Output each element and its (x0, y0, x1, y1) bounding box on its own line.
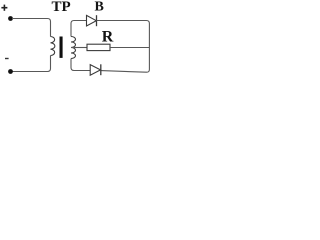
wire primary bottom to bottom-left terminal (12, 56, 51, 72)
wire secondary top to diode B1 (71, 21, 87, 37)
svg-text:B: B (95, 0, 104, 15)
wire diode B1 to right rail, down right side, bottom to diode B2 cathode (97, 21, 150, 73)
wire resistor R to right rail (110, 47, 149, 49)
wire secondary center tap to resistor R (71, 47, 87, 49)
svg-text:TP: TP (52, 0, 71, 15)
diode B1 cathode bar (96, 15, 98, 26)
svg-text:R: R (102, 29, 114, 46)
terminal dot bottom-left (8, 69, 13, 74)
label + (plus input terminal) (1, 7, 7, 9)
transformer TP secondary winding (71, 37, 76, 59)
resistor R body (87, 44, 110, 50)
diode B2 (lower) triangle (90, 65, 100, 76)
label - (minus input terminal) (5, 58, 9, 59)
transformer TP primary winding (51, 37, 55, 56)
terminal dot top-left (8, 16, 13, 21)
diode B2 cathode bar (100, 64, 102, 75)
diode B1 (upper) triangle (87, 15, 97, 26)
wire secondary bottom to diode B2 (71, 59, 90, 71)
transformer core bar (60, 37, 63, 58)
wire top-left to primary top (12, 19, 51, 37)
